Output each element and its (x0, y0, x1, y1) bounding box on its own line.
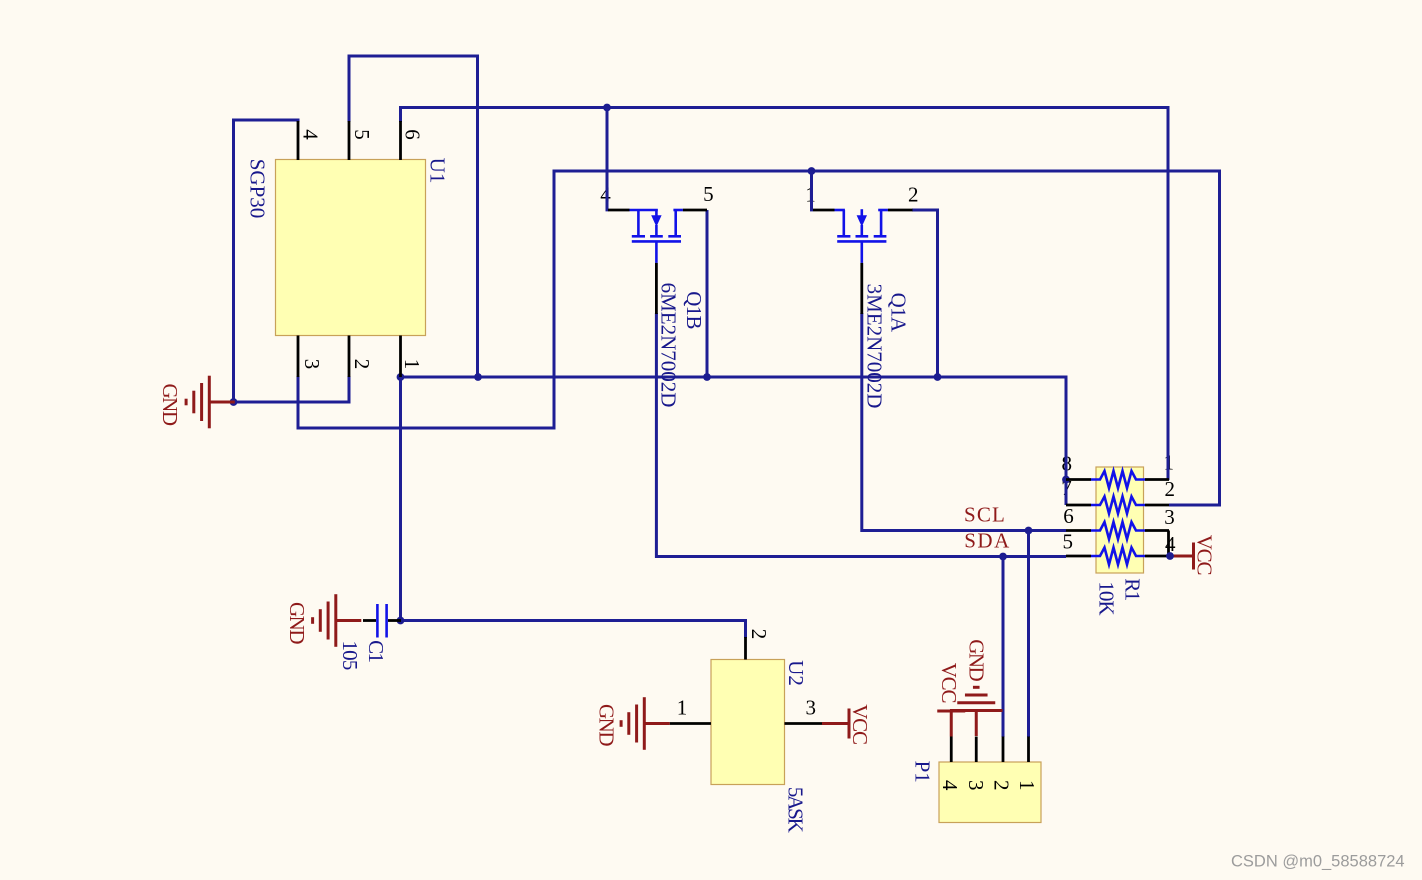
R1 pin number 6 (1063, 504, 1073, 528)
U1 pin 1 stub (399, 336, 402, 378)
wire U1.4 to GND net (234, 120, 299, 402)
GND label at U2 (595, 704, 619, 746)
R1 pins 3-4 tie (1167, 531, 1170, 557)
ground GND at U1 (186, 376, 235, 429)
svg-text:VCC: VCC (937, 663, 961, 703)
svg-text:10K: 10K (1094, 581, 1118, 615)
R1 pin number 5 (1063, 529, 1073, 553)
Q1B pin number 4 (600, 183, 611, 207)
transistor Q1B 6ME2N7002D (608, 209, 707, 314)
P1 pin 2 stub (1002, 737, 1005, 763)
junction R1.4 VCC node (1166, 552, 1174, 560)
wire SDA drop to P1.2 (1002, 557, 1005, 738)
U1 pin number 2 (350, 359, 374, 369)
R1 pin 5 stub (1066, 555, 1091, 558)
svg-text:GND: GND (965, 639, 989, 681)
GND label at P1 (965, 639, 989, 681)
junction node at (811.5,171) (808, 167, 816, 175)
svg-text:3ME2N7002D: 3ME2N7002D (863, 284, 887, 409)
svg-text:CSDN @m0_58588724: CSDN @m0_58588724 (1231, 853, 1405, 871)
svg-text:1: 1 (677, 696, 687, 720)
svg-text:105: 105 (338, 640, 362, 669)
wire U1.1 bus to R1.8/7 (401, 377, 1067, 505)
svg-text:P1: P1 (911, 761, 935, 783)
svg-text:5ASK: 5ASK (784, 787, 808, 833)
junction C1 node (397, 617, 405, 625)
svg-text:2: 2 (1165, 477, 1175, 501)
svg-text:Q1A: Q1A (887, 293, 911, 333)
svg-text:5: 5 (1063, 529, 1073, 553)
wire U1.5 top loop (349, 56, 478, 377)
wire branch to Q1B gate-side pin 4 (606, 108, 609, 212)
R1 pin 4 stub (1145, 555, 1169, 558)
svg-text:2: 2 (350, 359, 374, 369)
U1 refdes label (426, 158, 450, 184)
VCC label at R1 (1193, 535, 1217, 575)
R1 element 5-4 (1091, 548, 1145, 565)
watermark text (1231, 853, 1405, 871)
power VCC at P1 pin4 (937, 711, 965, 737)
svg-text:U2: U2 (784, 660, 808, 686)
Q1A refdes label (887, 293, 911, 333)
C1 refdes label (364, 640, 388, 662)
svg-text:4: 4 (938, 780, 962, 791)
R1 pin 2 stub (1145, 504, 1169, 507)
U1 value label SGP30 (246, 159, 270, 219)
U1 pin number 6 (401, 129, 425, 139)
svg-text:3: 3 (1164, 505, 1174, 529)
connector P1 body (939, 762, 1041, 823)
U1 pin number 3 (300, 359, 324, 369)
R1 element 8-1 (1091, 471, 1145, 488)
svg-text:5: 5 (703, 182, 713, 206)
svg-text:GND: GND (595, 704, 619, 746)
svg-text:R1: R1 (1121, 578, 1145, 601)
Q1B refdes label (682, 291, 706, 329)
net label SCL (964, 503, 1006, 527)
wire U1.6 to R1.1 top bus (401, 108, 1169, 481)
U1 pin 6 stub (399, 121, 402, 160)
R1 pin number 7 (1061, 476, 1071, 500)
P1 pin number 2 (990, 780, 1014, 790)
U2 pin number 3 (806, 695, 816, 719)
P1 pin number 4 (938, 780, 962, 791)
svg-text:SCL: SCL (964, 503, 1006, 527)
wire SDA net Q1B gate to R1.5 (656, 313, 1066, 557)
C1 value label 105 (338, 640, 362, 669)
P1 pin 3 stub (975, 737, 978, 763)
svg-text:U1: U1 (426, 158, 450, 184)
junction GND node (230, 398, 238, 406)
R1 pin 6 stub (1066, 529, 1091, 532)
wire U1.3 to R1.2 net (298, 171, 1220, 505)
Q1A pin number 2 (908, 182, 918, 206)
U1 pin number 4 (299, 129, 323, 140)
U2 value label 5ASK (784, 787, 808, 833)
svg-text:3: 3 (964, 780, 988, 790)
wire C1 node to U2.2 (401, 621, 746, 639)
junction loop end on bus (474, 373, 482, 381)
svg-text:3: 3 (300, 359, 324, 369)
svg-text:6: 6 (401, 129, 425, 139)
Q1B pin number 5 (703, 182, 713, 206)
junction SDA to P1.2 (999, 553, 1007, 561)
svg-text:GND: GND (158, 384, 182, 426)
R1 refdes label (1121, 578, 1145, 601)
R1 element 7-2 (1091, 497, 1145, 514)
junction node at (607,107) (603, 104, 611, 112)
U1 pin 3 stub (297, 336, 300, 378)
U1 pin number 1 (400, 359, 424, 369)
resistor network R1 body (1096, 467, 1144, 573)
junction R1.8 node (1062, 476, 1070, 484)
svg-text:1: 1 (1015, 780, 1039, 790)
P1 pin 4 stub (950, 737, 953, 763)
U2 pin 2 stub (744, 637, 747, 660)
junction U1.1 node (397, 373, 405, 381)
power VCC at R1 pin4 (1170, 543, 1194, 570)
junction Q1B.5 on bus (703, 373, 711, 381)
svg-text:2: 2 (990, 780, 1014, 790)
R1 pin number 3 (1164, 505, 1174, 529)
R1 element 6-3 (1091, 522, 1145, 539)
Q1A pin number 1 (805, 183, 815, 207)
P1 pin number 1 (1015, 780, 1039, 790)
svg-text:3: 3 (806, 695, 816, 719)
GND label at C1 (285, 602, 309, 644)
U2 refdes label (784, 660, 808, 686)
ground GND at U2 pin1 (621, 697, 670, 750)
wire U1.2 to GND net (234, 376, 350, 402)
svg-text:5: 5 (350, 129, 374, 139)
GND label at U1 (158, 384, 182, 426)
net label SDA (964, 529, 1011, 553)
R1 pin 3 stub (1145, 529, 1169, 532)
U2 pin number 2 (747, 629, 771, 639)
svg-text:4: 4 (299, 129, 323, 140)
U2 pin 3 stub (785, 722, 823, 725)
svg-text:6ME2N7002D: 6ME2N7002D (656, 283, 680, 408)
wire SCL drop to P1.1 (1027, 531, 1030, 738)
wire Q1B pin5 down to bus (706, 210, 709, 377)
wire Q1A pin2 down to bus (912, 210, 938, 377)
capacitor C1 105 (363, 604, 401, 638)
svg-text:SGP30: SGP30 (246, 159, 270, 219)
P1 pin 1 stub (1027, 737, 1030, 763)
wire U1.1 down to C1 node (399, 377, 402, 621)
svg-text:VCC: VCC (1193, 535, 1217, 575)
U1 pin 5 stub (348, 121, 351, 160)
transistor Q1A 3ME2N7002D (813, 209, 913, 314)
svg-text:Q1B: Q1B (682, 291, 706, 329)
R1 pin number 1 (1164, 451, 1174, 475)
IC U1 SGP30 body (276, 160, 426, 336)
R1 pin number 8 (1061, 451, 1071, 475)
svg-text:6: 6 (1063, 504, 1073, 528)
U2 pin number 1 (677, 696, 687, 720)
svg-text:VCC: VCC (848, 704, 872, 744)
Q1B value label 6ME2N7002D (656, 283, 680, 408)
svg-text:2: 2 (908, 182, 918, 206)
R1 pin number 2 (1165, 477, 1175, 501)
R1 pin 8 stub (1066, 478, 1091, 481)
Q1A value label 3ME2N7002D (863, 284, 887, 409)
svg-text:C1: C1 (364, 640, 388, 662)
U1 pin 2 stub (348, 336, 351, 378)
wire SCL net Q1A gate to R1.6 (862, 313, 1066, 531)
junction SCL to P1.1 (1025, 527, 1033, 535)
U1 pin number 5 (350, 129, 374, 139)
ground GND at C1 (313, 594, 362, 647)
U1 pin 4 stub (297, 121, 300, 160)
wire branch to Q1A pin 1 (810, 171, 813, 211)
R1 pin number 4 (1165, 532, 1176, 556)
U2 pin 1 stub (670, 722, 711, 725)
svg-text:GND: GND (285, 602, 309, 644)
P1 pin number 3 (964, 780, 988, 790)
R1 pin 1 stub (1145, 478, 1169, 481)
svg-text:SDA: SDA (964, 529, 1011, 553)
R1 pin 7 stub (1066, 504, 1091, 507)
svg-text:1: 1 (400, 359, 424, 369)
IC U2 5ASK body (711, 660, 785, 785)
P1 refdes label (911, 761, 935, 783)
svg-text:2: 2 (747, 629, 771, 639)
junction Q1A.2 on bus (934, 373, 942, 381)
R1 value label 10K (1094, 581, 1118, 615)
VCC label at U2 (848, 704, 872, 744)
power VCC at U2 pin3 (822, 709, 849, 739)
ground GND at P1 pin3 (950, 687, 1003, 736)
VCC label at P1 (937, 663, 961, 703)
